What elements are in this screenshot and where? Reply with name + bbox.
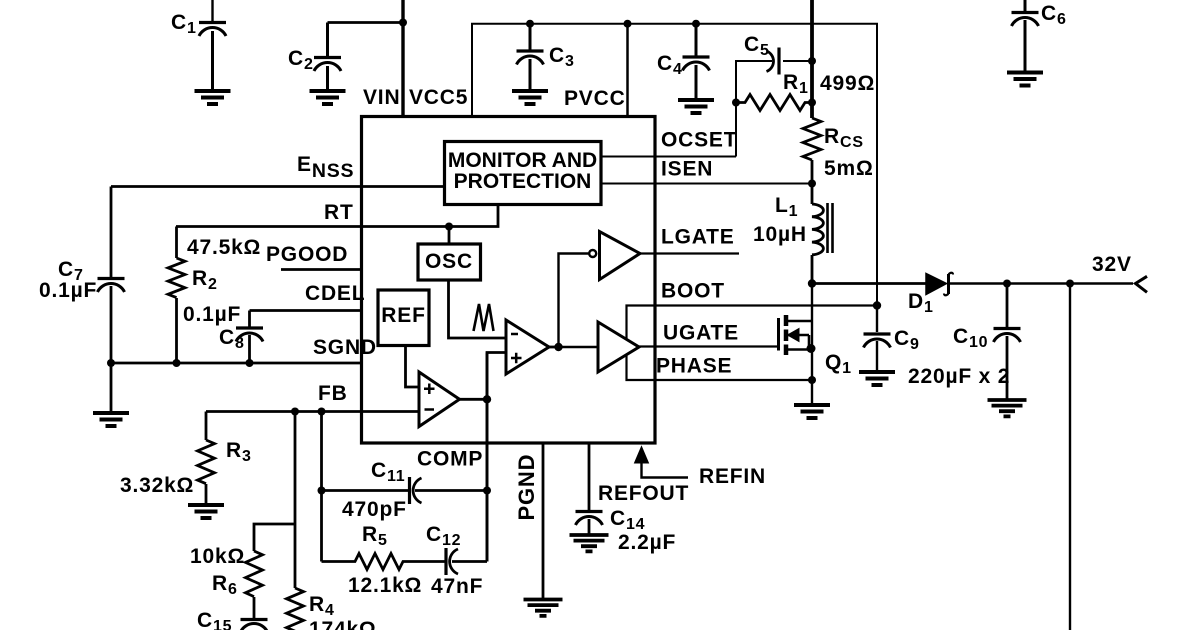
- wire PVCC pin vertical: [626, 24, 629, 117]
- diode D1: [926, 273, 953, 296]
- wire FB pin: [206, 410, 419, 413]
- wire C11/R5 vertical: [320, 412, 323, 562]
- wire PWM to UGATE driver: [559, 346, 599, 348]
- wire OCSET pin: [601, 156, 736, 158]
- node SGND / C7 junction: [107, 359, 115, 367]
- oscillator OSC: [418, 227, 481, 281]
- node SGND / C8 junction: [246, 359, 254, 367]
- monitor and protection block U1: [445, 142, 602, 205]
- IC box: [362, 117, 656, 444]
- svg-text:32V: 32V: [1092, 253, 1132, 276]
- wire OSC to PWM comparator: [449, 280, 507, 338]
- ground (C7): [93, 413, 129, 426]
- resistor R2: [168, 227, 185, 364]
- wire R6 branch: [254, 524, 295, 551]
- resistor R6: [246, 551, 263, 618]
- svg-text:VIN: VIN: [363, 86, 400, 109]
- svg-text:REFOUT: REFOUT: [598, 482, 689, 505]
- svg-text:174kΩ: 174kΩ: [309, 618, 377, 630]
- wire COMP pin vertical: [487, 353, 506, 562]
- capacitor C9: [864, 306, 891, 372]
- capacitor C15: [241, 620, 268, 630]
- capacitor C12: [446, 548, 487, 575]
- node VCC5 rail / C4 junction: [692, 20, 700, 28]
- node RT / OSC junction: [445, 223, 453, 231]
- node Q1 source junction: [807, 344, 816, 353]
- svg-text:FB: FB: [318, 382, 348, 405]
- svg-text:499Ω: 499Ω: [820, 72, 875, 95]
- svg-text:REFIN: REFIN: [699, 465, 766, 488]
- capacitor C10: [994, 284, 1021, 400]
- capacitor C8: [236, 311, 263, 364]
- wire CDEL pin: [250, 309, 362, 312]
- ground (C3): [512, 91, 548, 104]
- inverter bubble: [589, 250, 596, 257]
- wire error amp output: [460, 398, 488, 401]
- node PWM output junction: [554, 343, 562, 351]
- svg-text:OSC: OSC: [425, 250, 473, 273]
- svg-text:2.2µF: 2.2µF: [618, 531, 676, 554]
- ground (C2): [310, 91, 346, 104]
- svg-text:UGATE: UGATE: [663, 322, 739, 345]
- ground (R3): [188, 505, 224, 518]
- wire ISEN pin: [601, 183, 812, 185]
- capacitor C5: [767, 48, 813, 75]
- resistor R4: [287, 588, 304, 630]
- node C5 / VIN feed junction: [808, 57, 816, 65]
- wire PWM output: [549, 346, 559, 349]
- capacitor C6: [1012, 0, 1039, 71]
- svg-text:10kΩ: 10kΩ: [190, 545, 245, 568]
- node junction dots: [107, 19, 1074, 495]
- wire output line: [812, 282, 926, 285]
- svg-text:CDEL: CDEL: [305, 282, 365, 305]
- svg-text:PVCC: PVCC: [564, 87, 626, 110]
- node C11 branch junction: [318, 487, 326, 495]
- wire C5 branch left: [736, 61, 772, 157]
- svg-text:VCC5: VCC5: [409, 86, 468, 109]
- op-amp PWM comparator: [506, 320, 549, 374]
- resistor Rcs: [803, 118, 821, 204]
- svg-text:SGND: SGND: [313, 336, 377, 359]
- capacitor C4: [683, 24, 710, 99]
- svg-text:RT: RT: [324, 201, 354, 224]
- svg-text:BOOT: BOOT: [661, 280, 725, 303]
- ground (PGND): [524, 600, 563, 616]
- resistor R3: [198, 412, 215, 505]
- transistor Q1: [779, 284, 813, 405]
- svg-text:0.1µF: 0.1µF: [183, 303, 241, 326]
- ground (C6): [1007, 73, 1043, 86]
- svg-text:PGOOD: PGOOD: [266, 243, 348, 266]
- node output / C10 junction: [1003, 280, 1011, 288]
- wire PWM to LGATE inverter: [559, 254, 590, 348]
- node COMP / C11 junction: [483, 487, 491, 495]
- resistor R1: [736, 95, 812, 111]
- svg-text:47.5kΩ: 47.5kΩ: [187, 236, 261, 259]
- svg-text:MONITOR AND: MONITOR AND: [448, 149, 597, 172]
- svg-text:LGATE: LGATE: [661, 226, 735, 249]
- wire RT pin: [176, 205, 498, 227]
- svg-text:12.1kΩ: 12.1kΩ: [348, 574, 422, 597]
- node VCC5 rail / PVCC junction: [624, 20, 632, 28]
- op-amp LGATE driver: [600, 232, 641, 280]
- capacitor C7: [98, 187, 125, 364]
- wire PGND pin: [542, 443, 545, 598]
- ground (C14): [570, 535, 609, 551]
- node 32V connector: [1136, 276, 1148, 292]
- wire COMP node vertical: [486, 353, 489, 562]
- node output / feedback tap junction: [1066, 280, 1074, 288]
- node ISEN / Rcs / L1 junction: [808, 180, 816, 188]
- node R1 right junction: [808, 99, 816, 107]
- svg-text:COMP: COMP: [417, 448, 483, 471]
- svg-text:PGND: PGND: [514, 454, 539, 521]
- wire output to 32V: [949, 282, 1134, 284]
- capacitor C3: [517, 24, 544, 90]
- wire C7 to ground: [110, 363, 113, 412]
- svg-text:REF: REF: [381, 304, 425, 327]
- node VCC5 rail / C3 junction: [526, 20, 534, 28]
- ground (Q1): [794, 405, 830, 418]
- svg-text:470pF: 470pF: [342, 498, 407, 521]
- op-amp error amplifier: [419, 372, 460, 427]
- capacitor C14: [576, 512, 603, 535]
- svg-text:PHASE: PHASE: [656, 355, 732, 378]
- svg-text:47nF: 47nF: [431, 575, 483, 598]
- wire SGND pin: [111, 362, 361, 365]
- svg-text:3.32kΩ: 3.32kΩ: [120, 474, 194, 497]
- wire FB to R4 vertical: [294, 412, 297, 589]
- op-amp UGATE driver: [598, 322, 639, 372]
- ground (C10): [988, 400, 1027, 416]
- node VIN/C2 junction: [399, 19, 407, 27]
- node SGND / R2 junction: [173, 359, 181, 367]
- resistor R5: [322, 554, 447, 570]
- node error amp output / COMP junction: [483, 395, 491, 403]
- node R1 left junction: [732, 99, 740, 107]
- wire feedback tap vertical: [1069, 284, 1071, 630]
- capacitor C1: [199, 23, 226, 91]
- ground (C1): [195, 91, 231, 104]
- node BOOT / C9 junction: [873, 301, 881, 309]
- svg-text:220µF x 2: 220µF x 2: [908, 365, 1010, 388]
- wire PGOOD pin stub: [281, 268, 361, 271]
- node FB / R4 junction: [291, 408, 299, 416]
- node PHASE / Q1 junction: [808, 376, 816, 384]
- reference block REF: [378, 290, 429, 346]
- capacitor C11: [410, 477, 488, 504]
- wire C1 stem from top: [211, 0, 213, 21]
- svg-text:OCSET: OCSET: [661, 129, 737, 152]
- wire LGATE pin: [640, 252, 739, 254]
- wire UGATE pin: [639, 345, 778, 347]
- sawtooth ramp symbol: [474, 304, 494, 331]
- wire BOOT-PHASE rail: [627, 306, 878, 381]
- svg-text:5mΩ: 5mΩ: [824, 157, 874, 180]
- wire REFIN arrow: [635, 447, 689, 478]
- node phase output junction: [808, 279, 816, 287]
- ground (C9): [859, 372, 895, 385]
- wire VIN thick feed vertical: [810, 0, 814, 118]
- svg-text:PROTECTION: PROTECTION: [454, 170, 592, 193]
- svg-text:10µH: 10µH: [753, 223, 807, 246]
- ground (C4): [678, 100, 714, 113]
- node FB / C11-R5 junction: [318, 408, 326, 416]
- wire C11 branch: [322, 489, 410, 492]
- svg-text:ISEN: ISEN: [661, 158, 713, 181]
- svg-text:0.1µF: 0.1µF: [39, 279, 97, 302]
- wire C2 branch: [328, 21, 404, 24]
- inductor L1: [812, 203, 833, 284]
- wire REF to error amp: [406, 346, 420, 388]
- wire REFOUT pin: [588, 443, 591, 510]
- wire ENSS pin: [111, 185, 445, 188]
- wire VCC5 rail: [472, 24, 877, 306]
- wire VIN pin vertical: [401, 0, 404, 117]
- capacitor C2: [314, 23, 341, 91]
